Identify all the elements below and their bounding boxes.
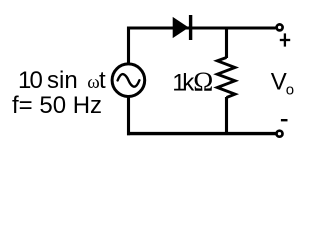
minus sign [281,119,288,121]
svg-text:1kΩ: 1kΩ [172,67,213,97]
resistor R1 top lead [225,27,228,59]
plus sign [280,33,290,46]
AC source sine wave [118,74,140,87]
diode D1 triangle anode [173,18,188,37]
wire top rail [127,26,276,29]
wire left vertical upper [127,27,130,64]
wire left vertical lower [127,97,130,136]
resistor R1 zigzag [217,58,235,98]
AC source V1 circle [112,64,145,97]
terminal top-right [277,24,283,30]
svg-text:10sinωt: 10sinωt [18,67,106,94]
terminal bottom-right [277,131,283,137]
resistor R1 bottom lead [225,97,228,135]
wire bottom rail [127,132,276,135]
svg-text:f= 50 Hz: f= 50 Hz [12,92,102,119]
diode D1 cathode bar [189,15,192,40]
